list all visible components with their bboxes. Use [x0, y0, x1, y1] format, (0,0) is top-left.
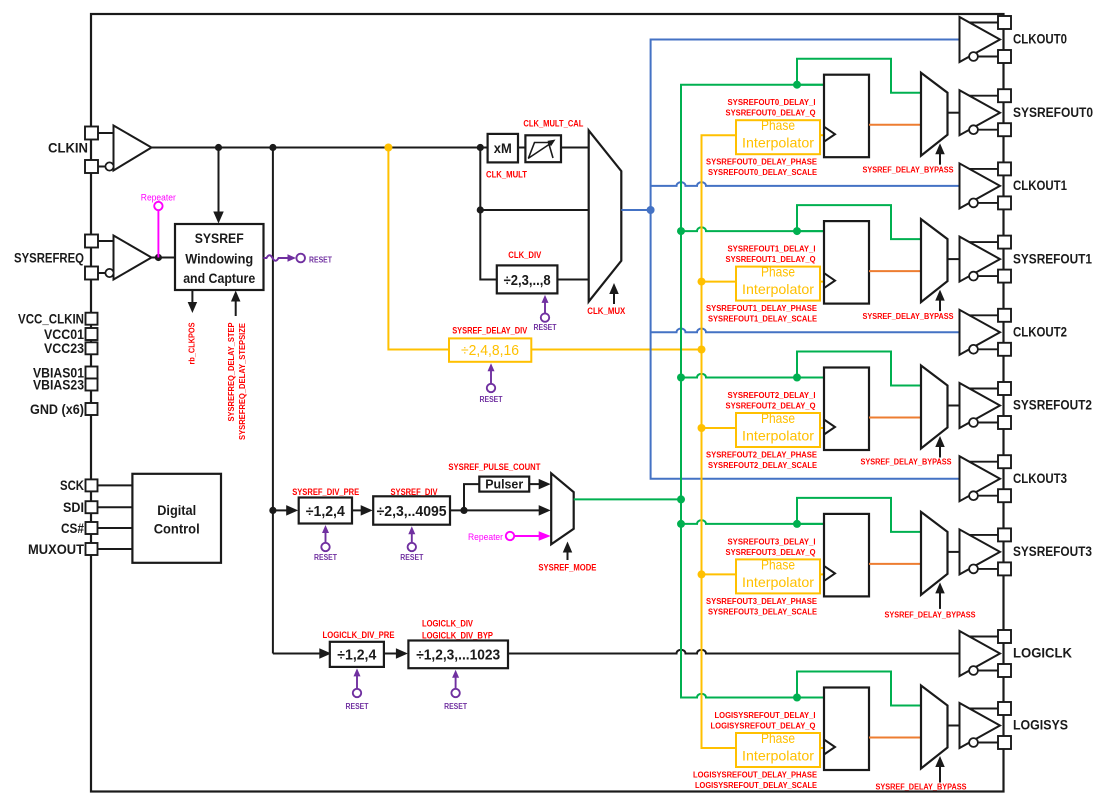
junction to SYSREF Windowing: [215, 144, 222, 151]
svg-text:SYSREF_DELAY_DIV: SYSREF_DELAY_DIV: [452, 326, 527, 336]
bubble CLKOUT3- output: [969, 491, 978, 500]
svg-text:SYSREF_DELAY_BYPASS: SYSREF_DELAY_BYPASS: [863, 311, 954, 321]
output buffer CLKOUT3: [960, 456, 1001, 501]
pin SYSREFOUT3+ (square): [998, 528, 1011, 541]
bubble CLKOUT2- output: [969, 345, 978, 354]
wire green to FF data input (SYSREFOUT0): [797, 84, 824, 86]
output buffer SYSREFOUT0: [960, 90, 1001, 135]
stub SYSREFOUT3+ to pin: [969, 534, 998, 536]
mux SYSREF_DELAY_BYPASS SYSREFOUT0: [921, 73, 948, 156]
input buffer CLKIN: [114, 126, 152, 171]
pin CS# (square): [86, 522, 98, 534]
output buffer CLKOUT0: [960, 17, 1001, 62]
mux CLK_MUX: [589, 130, 622, 301]
pin CLKOUT0+ (square): [998, 16, 1011, 29]
select arrow CLK_MUX: [613, 292, 615, 304]
select arrow bypass mux (SYSREFOUT3): [939, 592, 941, 609]
RESET output squiggle from SYSREF Windowing: [264, 255, 289, 261]
block Pulser: [479, 477, 529, 492]
svg-text:Phase: Phase: [761, 556, 795, 572]
wire PI to FF clock (SYSREFOUT0): [820, 134, 824, 136]
pin VCC_CLKIN (square): [86, 313, 98, 325]
svg-text:Pulser: Pulser: [485, 477, 523, 492]
mux SYSREF_MODE: [551, 473, 574, 544]
wire green to FF data input (SYSREFOUT1): [797, 230, 824, 232]
chip boundary: [91, 14, 1004, 792]
pin VCC01 (square): [86, 328, 98, 340]
svg-text:MUXOUT: MUXOUT: [28, 542, 85, 557]
svg-text:SYSREF_DIV_PRE: SYSREF_DIV_PRE: [292, 487, 359, 497]
output buffer LOGICLK: [960, 631, 1001, 676]
svg-text:÷2,4,8,16: ÷2,4,8,16: [461, 343, 519, 359]
bubble on SYSREFREQ- input: [105, 269, 113, 277]
svg-text:Digital: Digital: [157, 503, 196, 518]
wire PI to FF clock (SYSREFOUT2): [820, 427, 824, 429]
mux SYSREF_DELAY_BYPASS SYSREFOUT2: [921, 366, 948, 449]
green branch SYSREFOUT1 (hop yellow): [681, 227, 824, 231]
svg-text:RESET: RESET: [400, 553, 423, 562]
svg-text:and Capture: and Capture: [183, 271, 255, 286]
pin VCC23 (square): [86, 342, 98, 354]
svg-text:÷1,2,3,...1023: ÷1,2,3,...1023: [416, 647, 500, 663]
svg-text:Phase: Phase: [761, 264, 795, 280]
wire mux output to buffer (SYSREFOUT1): [948, 258, 960, 260]
block Digital Control: [132, 474, 221, 563]
select arrow bypass mux (SYSREFOUT1): [939, 299, 941, 311]
svg-text:CS#: CS#: [61, 521, 84, 536]
svg-text:SYSREF_DELAY_BYPASS: SYSREF_DELAY_BYPASS: [876, 782, 967, 792]
pin CLKOUT2+ (square): [998, 309, 1011, 322]
bubble SYSREFOUT2- output: [969, 418, 978, 427]
wire SYSREF_DIV_PRE to SYSREF_DIV: [352, 509, 362, 511]
svg-text:SYSREFOUT3_DELAY_PHASE: SYSREFOUT3_DELAY_PHASE: [706, 596, 817, 606]
wire LOGICLK_DIV output to LOGICLK buffer (hops over green+yellow): [507, 650, 960, 654]
wire SYSREF_DELAY_DIV output to yellow trunk (hops over blue+green): [531, 349, 701, 351]
junction blue trunk feed: [647, 206, 655, 214]
pin VBIAS23 (square): [86, 379, 98, 391]
pin SYSREFOUT1- (square): [998, 270, 1011, 283]
svg-text:SYSREF_DELAY_BYPASS: SYSREF_DELAY_BYPASS: [861, 457, 952, 467]
junction green trunk feed: [677, 495, 685, 503]
yellow branch Phase Interpolator 1: [702, 281, 737, 283]
pin CLKIN+ (square): [85, 127, 98, 140]
RESET for LOGICLK_DIV_PRE: [356, 675, 358, 689]
svg-text:VBIAS23: VBIAS23: [33, 377, 84, 392]
svg-text:CLK_MULT_CAL: CLK_MULT_CAL: [523, 119, 583, 129]
svg-text:CLKOUT3: CLKOUT3: [1013, 471, 1067, 486]
junction at SYSREF_DIV_PRE feed: [269, 507, 276, 514]
pin LOGISYS- (square): [998, 736, 1011, 749]
pin VBIAS01 (square): [86, 367, 98, 379]
wire mux output to buffer (SYSREFOUT0): [948, 112, 960, 114]
junction to Pulser: [460, 507, 467, 514]
svg-text:Interpolator: Interpolator: [742, 135, 814, 151]
svg-text:SYSREF: SYSREF: [195, 231, 244, 246]
wire LOGICLK_DIV_PRE to LOGICLK_DIV: [384, 653, 398, 655]
svg-text:SYSREFOUT0: SYSREFOUT0: [1013, 105, 1093, 120]
wire PI to FF clock (SYSREFOUT3): [820, 573, 824, 575]
block CLK_MULT_CAL (calibration ramp): [525, 135, 561, 162]
bubble on CLKIN- input: [105, 162, 113, 170]
pin SYSREFREQ- (square): [85, 267, 98, 280]
green branch junction (SYSREFOUT3): [793, 520, 801, 528]
select arrow bypass mux (LOGISYS): [939, 766, 941, 783]
flip-flop (delay capture) SYSREFOUT2: [824, 368, 869, 451]
pin CLKOUT0- (square): [998, 50, 1011, 63]
mux SYSREF_DELAY_BYPASS LOGISYS: [921, 686, 948, 769]
svg-text:SDI: SDI: [63, 500, 84, 515]
svg-text:Repeater: Repeater: [468, 532, 503, 542]
svg-text:GND (x6): GND (x6): [30, 402, 84, 417]
wire blue branch CLKOUT1 (hops green+yellow): [651, 182, 960, 186]
wire SYSREF_DIV output to SYSREF_MODE mux: [450, 509, 540, 511]
svg-text:SYSREFREQ_DELAY_STEP: SYSREFREQ_DELAY_STEP: [226, 322, 236, 421]
green branch SYSREFOUT2 (hop yellow): [681, 374, 824, 378]
svg-text:SYSREFOUT1_DELAY_Q: SYSREFOUT1_DELAY_Q: [726, 254, 816, 264]
svg-text:SYSREFOUT3_DELAY_SCALE: SYSREFOUT3_DELAY_SCALE: [708, 606, 817, 616]
svg-text:LOGICLK_DIV_BYP: LOGICLK_DIV_BYP: [422, 630, 493, 640]
wire green bypass over-route to mux (SYSREFOUT1): [797, 205, 921, 239]
svg-text:SYSREF_DELAY_BYPASS: SYSREF_DELAY_BYPASS: [863, 165, 954, 175]
wire CLKIN buffer output to xM (node CLKIN_BUF): [152, 147, 488, 149]
svg-text:LOGISYSREFOUT_DELAY_PHASE: LOGISYSREFOUT_DELAY_PHASE: [693, 770, 817, 780]
svg-text:RESET: RESET: [534, 323, 557, 332]
svg-text:SYSREF_DIV: SYSREF_DIV: [391, 487, 438, 497]
green branch SYSREFOUT3 (hop yellow): [681, 520, 824, 524]
wire down to SYSREF Windowing block: [218, 148, 220, 219]
flip-flop (delay capture) LOGISYS: [824, 688, 869, 771]
wire SYSREFREQ- to buffer bubble: [98, 272, 106, 274]
svg-text:RESET: RESET: [480, 395, 503, 404]
output buffer CLKOUT2: [960, 310, 1001, 355]
svg-text:LOGISYSREFOUT_DELAY_I: LOGISYSREFOUT_DELAY_I: [715, 710, 816, 720]
mux SYSREF_DELAY_BYPASS SYSREFOUT3: [921, 512, 948, 595]
wire green bypass over-route to mux (LOGISYS): [797, 672, 921, 706]
pin GND (x6) (square): [86, 403, 98, 415]
svg-text:Phase: Phase: [761, 730, 795, 746]
wire blue branch CLKOUT2 (hops green+yellow): [651, 328, 960, 332]
wire MUXOUT to Digital Control: [98, 548, 133, 550]
wire Pulser to SYSREF_MODE mux: [529, 483, 540, 485]
svg-text:SYSREFOUT1: SYSREFOUT1: [1013, 251, 1092, 266]
wire to LOGICLK_DIV_PRE: [273, 653, 320, 655]
RESET for LOGICLK_DIV: [455, 676, 457, 689]
input buffer SYSREFREQ: [114, 236, 152, 280]
svg-text:CLKIN: CLKIN: [48, 140, 88, 155]
wire PI to FF clock (LOGISYS): [820, 747, 824, 749]
svg-text:SYSREFREQ_DELAY_STEPSIZE: SYSREFREQ_DELAY_STEPSIZE: [237, 323, 247, 440]
wire SYSREFREQ buffer to SYSREF Windowing: [152, 257, 176, 259]
yellow branch Phase Interpolator 3: [702, 573, 737, 575]
stub CLKOUT3+ to pin: [969, 461, 998, 463]
green SYSREF trunk: [681, 85, 824, 698]
wire FF output (orange) to mux (LOGISYS): [869, 737, 921, 739]
svg-text:SYSREF_DELAY_BYPASS: SYSREF_DELAY_BYPASS: [885, 610, 976, 620]
svg-text:VCC23: VCC23: [44, 341, 84, 356]
svg-text:Interpolator: Interpolator: [742, 748, 814, 764]
block LOGICLK_DIV_PRE: [330, 642, 384, 667]
green branch junction (SYSREFOUT1): [793, 227, 801, 235]
yellow branch Phase Interpolator 2: [702, 427, 737, 429]
svg-text:÷2,3,..,8: ÷2,3,..,8: [504, 273, 551, 289]
svg-text:LOGISYSREFOUT_DELAY_Q: LOGISYSREFOUT_DELAY_Q: [711, 721, 816, 731]
svg-text:VCC01: VCC01: [44, 327, 84, 342]
svg-text:SYSREFOUT3_DELAY_I: SYSREFOUT3_DELAY_I: [728, 536, 816, 546]
bubble CLKOUT1- output: [969, 199, 978, 208]
wire SYSREF_MODE output to green trunk: [574, 498, 681, 500]
wire down to divider chains: [272, 148, 274, 654]
svg-text:CLKOUT2: CLKOUT2: [1013, 325, 1067, 340]
yellow SYSREF delay clock trunk: [702, 135, 737, 748]
pin LOGISYS+ (square): [998, 702, 1011, 715]
block LOGICLK_DIV: [408, 641, 508, 669]
svg-text:SYSREFOUT1_DELAY_SCALE: SYSREFOUT1_DELAY_SCALE: [708, 314, 817, 324]
output buffer SYSREFOUT3: [960, 529, 1001, 574]
stub LOGISYS+ to pin: [969, 708, 998, 710]
svg-text:rb_CLKPOS: rb_CLKPOS: [187, 322, 197, 364]
junction (yellow tap to SYSREF_DELAY_DIV): [384, 144, 392, 152]
svg-text:SYSREFOUT0_DELAY_PHASE: SYSREFOUT0_DELAY_PHASE: [706, 157, 817, 167]
block SYSREF Windowing and Capture: [175, 224, 264, 290]
RESET for SYSREF_DIV_PRE: [325, 532, 327, 543]
wire green bypass over-route to mux (SYSREFOUT0): [797, 59, 921, 93]
svg-text:SYSREFOUT2_DELAY_Q: SYSREFOUT2_DELAY_Q: [726, 401, 816, 411]
svg-text:SYSREF_MODE: SYSREF_MODE: [538, 563, 596, 573]
wire CLK_DIV output to CLK_MUX: [557, 279, 588, 281]
select arrow SYSREF_MODE: [567, 550, 569, 560]
block SYSREF_DIV: [373, 496, 450, 524]
phase interpolator SYSREFOUT3: [736, 559, 820, 593]
wire mux output to buffer (SYSREFOUT2): [948, 405, 960, 407]
svg-text:÷1,2,4: ÷1,2,4: [306, 504, 345, 520]
svg-text:LOGICLK_DIV: LOGICLK_DIV: [422, 619, 473, 629]
wire SYSREFREQ+ to buffer: [98, 240, 114, 242]
stub CLKOUT0+ to pin: [969, 22, 998, 24]
mux SYSREF_DELAY_BYPASS SYSREFOUT1: [921, 219, 948, 302]
wire green to FF data input (SYSREFOUT3): [797, 523, 824, 525]
wire SDI to Digital Control: [98, 506, 133, 508]
svg-text:÷2,3,..4095: ÷2,3,..4095: [377, 504, 447, 520]
pin SDI (square): [86, 501, 98, 513]
wire mux output to buffer (LOGISYS): [948, 725, 960, 727]
RESET for SYSREF_DIV: [411, 533, 413, 543]
wire mux output to buffer (SYSREFOUT3): [948, 551, 960, 553]
output buffer SYSREFOUT2: [960, 383, 1001, 428]
svg-text:SYSREFOUT2: SYSREFOUT2: [1013, 398, 1092, 413]
phase interpolator SYSREFOUT0: [736, 120, 820, 154]
repeater tap (magenta) at SYSREFREQ: [157, 210, 159, 257]
svg-text:xM: xM: [494, 141, 512, 156]
svg-text:SYSREFOUT3_DELAY_Q: SYSREFOUT3_DELAY_Q: [726, 547, 816, 557]
bubble SYSREFOUT0- output: [969, 125, 978, 134]
wire up to Pulser: [464, 484, 479, 510]
svg-text:SYSREFOUT0_DELAY_I: SYSREFOUT0_DELAY_I: [728, 97, 816, 107]
pin MUXOUT (square): [86, 543, 98, 555]
pin CLKOUT1- (square): [998, 196, 1011, 209]
wire CLK branch: direct input to CLK_MUX: [480, 148, 497, 280]
svg-text:SCK: SCK: [60, 478, 84, 493]
svg-text:Interpolator: Interpolator: [742, 574, 814, 590]
flip-flop (delay capture) SYSREFOUT0: [824, 75, 869, 158]
wire FF output (orange) to mux (SYSREFOUT0): [869, 124, 921, 126]
wire CS# to Digital Control: [98, 527, 133, 529]
pin SYSREFOUT2+ (square): [998, 382, 1011, 395]
node SYSREFREQ_BUF junction: [155, 254, 162, 261]
output buffer SYSREFOUT1: [960, 237, 1001, 282]
wire FF output (orange) to mux (SYSREFOUT2): [869, 417, 921, 419]
pin CLKOUT2- (square): [998, 343, 1011, 356]
input arrow SYSREFREQ_DELAY controls: [235, 301, 237, 316]
wire PI to FF clock (SYSREFOUT1): [820, 281, 824, 283]
junction to SYSREF/LOGICLK dividers: [269, 144, 276, 151]
RESET terminal circle: [296, 254, 305, 263]
svg-text:Control: Control: [154, 522, 200, 537]
pin CLKIN- (square): [85, 160, 98, 173]
svg-text:CLK_DIV: CLK_DIV: [508, 250, 541, 260]
blue clock trunk (CLK_MUX output distribution): [651, 40, 960, 479]
wire yellow tap down to SYSREF_DELAY_DIV: [388, 148, 449, 350]
bubble LOGISYS- output: [969, 738, 978, 747]
wire CLKIN+ to buffer: [98, 132, 114, 134]
block xM (clock multiplier): [488, 134, 518, 163]
svg-text:RESET: RESET: [444, 702, 467, 711]
select arrow bypass mux (SYSREFOUT0): [939, 153, 941, 165]
block SYSREF_DIV_PRE: [299, 498, 352, 524]
block SYSREF_DELAY_DIV (yellow divider): [449, 338, 531, 361]
stub SYSREFOUT1+ to pin: [969, 241, 998, 243]
junction yellow trunk feed: [698, 346, 706, 354]
svg-text:RESET: RESET: [346, 702, 369, 711]
phase interpolator SYSREFOUT1: [736, 267, 820, 301]
wire green to FF data input (SYSREFOUT2): [797, 377, 824, 379]
svg-text:LOGICLK: LOGICLK: [1013, 646, 1072, 661]
svg-text:SYSREFOUT2_DELAY_PHASE: SYSREFOUT2_DELAY_PHASE: [706, 450, 817, 460]
svg-text:SYSREFOUT3: SYSREFOUT3: [1013, 544, 1092, 559]
pin SYSREFOUT0+ (square): [998, 89, 1011, 102]
pin LOGICLK- (square): [998, 664, 1011, 677]
pin SYSREFREQ+ (square): [85, 235, 98, 248]
wire CLK_MUX output to blue trunk: [621, 209, 650, 211]
phase interpolator SYSREFOUT2: [736, 413, 820, 447]
green branch junction (LOGISYS): [793, 694, 801, 702]
wire SCK to Digital Control: [98, 484, 133, 486]
select arrow bypass mux (SYSREFOUT2): [939, 446, 941, 458]
RESET for CLK_DIV: [544, 301, 546, 313]
flip-flop (delay capture) SYSREFOUT1: [824, 221, 869, 304]
pin SYSREFOUT3- (square): [998, 562, 1011, 575]
svg-text:Windowing: Windowing: [185, 251, 253, 266]
stub CLKOUT1+ to pin: [969, 168, 998, 170]
wire middle input to CLK_MUX: [480, 209, 588, 211]
svg-text:LOGISYSREFOUT_DELAY_SCALE: LOGISYSREFOUT_DELAY_SCALE: [695, 780, 817, 790]
stub SYSREFOUT2+ to pin: [969, 388, 998, 390]
wire green bypass over-route to mux (SYSREFOUT2): [797, 352, 921, 386]
stub CLKOUT2+ to pin: [969, 314, 998, 316]
pin SYSREFOUT0- (square): [998, 123, 1011, 136]
flip-flop (delay capture) SYSREFOUT3: [824, 514, 869, 597]
wire CLKIN- to buffer bubble: [98, 166, 106, 168]
svg-text:SYSREFOUT0_DELAY_Q: SYSREFOUT0_DELAY_Q: [726, 108, 816, 118]
pin CLKOUT3+ (square): [998, 455, 1011, 468]
bubble CLKOUT0- output: [969, 52, 978, 61]
pin SYSREFOUT2- (square): [998, 416, 1011, 429]
phase interpolator LOGISYS: [736, 733, 820, 767]
svg-text:SYSREFOUT2_DELAY_I: SYSREFOUT2_DELAY_I: [728, 390, 816, 400]
bubble SYSREFOUT3- output: [969, 565, 978, 574]
svg-text:Phase: Phase: [761, 410, 795, 426]
pin LOGICLK+ (square): [998, 630, 1011, 643]
junction to CLK paths: [477, 144, 484, 151]
pin SYSREFOUT1+ (square): [998, 236, 1011, 249]
svg-text:Interpolator: Interpolator: [742, 281, 814, 297]
svg-text:VCC_CLKIN: VCC_CLKIN: [18, 312, 84, 327]
svg-text:SYSREFOUT0_DELAY_SCALE: SYSREFOUT0_DELAY_SCALE: [708, 167, 817, 177]
wire to SYSREF_DIV_PRE: [273, 509, 287, 511]
svg-text:RESET: RESET: [309, 254, 333, 264]
svg-text:÷1,2,4: ÷1,2,4: [337, 647, 376, 663]
output buffer CLKOUT1: [960, 163, 1001, 208]
svg-text:CLKOUT1: CLKOUT1: [1013, 178, 1067, 193]
green branch junction (SYSREFOUT0): [793, 81, 801, 89]
output arrow rb_CLKPOS: [191, 290, 193, 303]
pin CLKOUT1+ (square): [998, 162, 1011, 175]
svg-text:LOGICLK_DIV_PRE: LOGICLK_DIV_PRE: [323, 630, 395, 640]
svg-text:LOGISYS: LOGISYS: [1013, 718, 1068, 733]
svg-text:SYSREFOUT1_DELAY_PHASE: SYSREFOUT1_DELAY_PHASE: [706, 303, 817, 313]
green branch junction (SYSREFOUT2): [793, 374, 801, 382]
pin SCK (square): [86, 479, 98, 491]
svg-text:Phase: Phase: [761, 117, 795, 133]
svg-text:Repeater: Repeater: [141, 193, 176, 203]
stub SYSREFOUT0+ to pin: [969, 95, 998, 97]
pin CLKOUT3- (square): [998, 489, 1011, 502]
wire green bypass over-route to mux (SYSREFOUT3): [797, 498, 921, 532]
svg-text:SYSREF_PULSE_COUNT: SYSREF_PULSE_COUNT: [448, 462, 540, 472]
bubble SYSREFOUT1- output: [969, 272, 978, 281]
svg-text:Interpolator: Interpolator: [742, 428, 814, 444]
output buffer LOGISYS: [960, 703, 1001, 748]
RESET for SYSREF_DELAY_DIV: [490, 370, 492, 384]
wire CAL to CLK_MUX: [561, 147, 589, 149]
stub LOGICLK+ to pin: [969, 636, 998, 638]
block CLK_DIV divider: [497, 265, 558, 293]
wire green to FF data input (LOGISYS): [797, 697, 824, 699]
svg-text:SYSREFOUT2_DELAY_SCALE: SYSREFOUT2_DELAY_SCALE: [708, 460, 817, 470]
svg-text:CLKOUT0: CLKOUT0: [1013, 32, 1067, 47]
svg-text:CLK_MUX: CLK_MUX: [587, 306, 625, 316]
svg-text:CLK_MULT: CLK_MULT: [486, 170, 527, 180]
svg-text:RESET: RESET: [314, 553, 337, 562]
bubble LOGICLK- output: [969, 666, 978, 675]
wire xM to CAL box: [518, 147, 525, 149]
svg-text:SYSREFOUT1_DELAY_I: SYSREFOUT1_DELAY_I: [728, 244, 816, 254]
svg-text:SYSREFREQ: SYSREFREQ: [14, 250, 84, 265]
wire FF output (orange) to mux (SYSREFOUT3): [869, 563, 921, 565]
wire FF output (orange) to mux (SYSREFOUT1): [869, 270, 921, 272]
junction CLK direct: [477, 206, 484, 213]
